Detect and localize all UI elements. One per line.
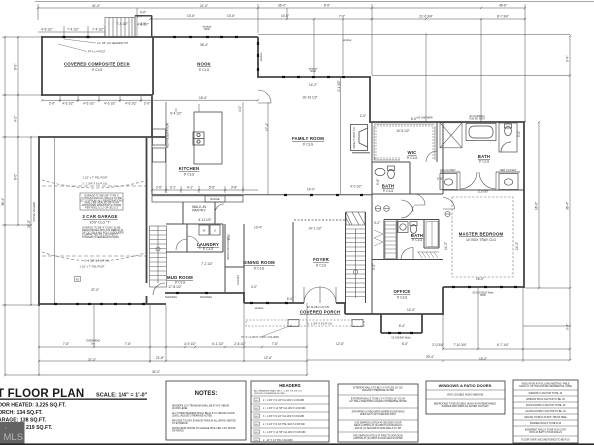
interior walls table [338,384,418,442]
garage interior dim line [54,137,56,304]
detector circles [375,206,381,212]
office door [401,248,413,260]
svg-text:2'-0": 2'-0" [49,101,55,105]
foyer double door [304,287,320,303]
svg-text:UNLESS OTHERWISE NOTED: UNLESS OTHERWISE NOTED [254,393,285,395]
svg-text:17'-8 1/2": 17'-8 1/2" [168,285,181,289]
svg-text:16'-0": 16'-0" [479,357,487,361]
svg-text:9'-2": 9'-2" [372,264,376,270]
svg-text:ORCH: 134 SQ.FT.: ORCH: 134 SQ.FT. [0,410,43,416]
svg-text:41'-0": 41'-0" [92,4,100,8]
svg-text:3 - 1 3/4" X 9 1/4" LVL W/2 X: 3 - 1 3/4" X 9 1/4" LVL W/2 X 6 KD WD [263,415,304,418]
svg-text:3 CAR GARAGE: 3 CAR GARAGE [82,214,117,219]
svg-text:SCALE: 1/4" = 1'-0": SCALE: 1/4" = 1'-0" [96,393,148,399]
svg-text:34'-0": 34'-0" [152,370,160,374]
svg-text:INSULATION AS FOLLOWS MEETING: INSULATION AS FOLLOWS MEETING TABLE [522,383,570,386]
svg-text:21'-0": 21'-0" [200,4,208,8]
svg-text:7'-2 1/2": 7'-2 1/2" [201,262,213,266]
svg-text:21'-6 3/4": 21'-6 3/4" [419,15,432,19]
svg-text:4'-6 1/2": 4'-6 1/2" [125,101,137,105]
svg-text:4'-1 1/2": 4'-1 1/2" [337,80,341,92]
svg-text:AND AT (2) SECOND FLOOR WALLS: AND AT (2) SECOND FLOOR WALLS AT JST [355,427,402,430]
dim top line 1 [38,7,525,9]
svg-text:9' CLG: 9' CLG [203,247,214,251]
svg-text:29'-0": 29'-0" [27,220,31,228]
office bay window [380,314,382,333]
powder bath walls [396,220,398,260]
dim top line 3 left [38,31,105,33]
windows nook east [257,42,259,45]
dimension tick slashes [4,7,571,376]
svg-text:10'-6": 10'-6" [281,14,289,18]
laundry door [187,236,200,249]
hall east wall [442,122,444,194]
porch front wall [244,302,304,304]
svg-text:4'-0 1/2": 4'-0 1/2" [350,185,362,189]
svg-text:37'-0": 37'-0" [91,288,99,292]
svg-text:HER CLOSET: HER CLOSET [500,168,517,172]
svg-text:6'-0": 6'-0" [402,342,408,346]
svg-text:2 - 1 3/4" X 11 7/8" LVL W/2 X: 2 - 1 3/4" X 11 7/8" LVL W/2 X 4 KD WD [263,407,306,410]
svg-text:6'-1 1/2": 6'-1 1/2" [212,342,224,346]
mud room north wall [166,251,187,253]
dimension texts [1,4,570,375]
svg-text:4'-1": 4'-1" [187,186,193,190]
svg-text:29'-4": 29'-4" [426,355,434,359]
svg-text:36'-4": 36'-4" [1,198,5,206]
svg-text:2'-6": 2'-6" [156,186,162,190]
svg-text:6'-4": 6'-4" [399,324,405,328]
svg-text:DOES NOT LAP OVER RIM JOIST: DOES NOT LAP OVER RIM JOIST [360,413,397,416]
HEADERS table [251,381,329,442]
svg-text:36'-4": 36'-4" [200,43,208,47]
svg-text:USE SIMPSON MTS12 AT FIRST FLO: USE SIMPSON MTS12 AT FIRST FLOOR DECK [353,435,403,438]
master wc [499,123,517,152]
svg-text:2 - 14" X 14" PSL COLUMN: 2 - 14" X 14" PSL COLUMN [263,439,293,442]
garage outline [39,136,166,138]
svg-text:ALL HEADERS SHALL BE 2 - 1 3/4: ALL HEADERS SHALL BE 2 - 1 3/4" X 9 1/4"… [254,390,303,393]
kitchen dim verticals [175,108,177,112]
deck post ticks [63,36,66,38]
svg-text:4'-6 1/2": 4'-6 1/2" [62,101,74,105]
svg-text:36'-0": 36'-0" [278,4,286,8]
svg-text:FLOOR OVER UNCONDITIONED TO BE: FLOOR OVER UNCONDITIONED TO BE R-19 [521,440,570,442]
svg-text:PANTRY: PANTRY [192,209,206,213]
svg-text:9' CLG: 9' CLG [479,160,490,164]
svg-text:6046: 6046 [204,27,210,31]
svg-text:PROVIDE T/O DRY EXHAUST FANS: PROVIDE T/O DRY EXHAUST FANS IN ALL BATH… [172,420,236,423]
svg-text:4'-9 1/2": 4'-9 1/2" [184,342,196,346]
svg-text:1/2" WALL SHEATHING UNLESS OTH: 1/2" WALL SHEATHING UNLESS OTHERWISE NOT… [349,400,407,403]
tray ceiling dashed [452,197,513,277]
svg-text:2'-7": 2'-7" [137,15,143,19]
svg-text:8'-0": 8'-0" [14,174,18,180]
svg-text:2'-0": 2'-0" [144,101,150,105]
svg-text:6'-0": 6'-0" [324,4,330,8]
garage door to mud [153,283,165,295]
svg-text:10'-6": 10'-6" [187,14,195,18]
svg-text:9'-4 1/2": 9'-4 1/2" [170,112,182,116]
svg-text:219 SQ.FT.: 219 SQ.FT. [26,425,53,431]
svg-text:HEADERS: HEADERS [279,383,301,388]
bottom edge line [0,443,594,445]
windows mudroom south [176,292,179,294]
hall south wall [384,219,439,221]
svg-text:4'-8 1/2": 4'-8 1/2" [41,28,53,32]
svg-text:14'-2": 14'-2" [309,83,317,87]
svg-text:OOR HEATED: 3,225 SQ.FT.: OOR HEATED: 3,225 SQ.FT. [0,403,66,409]
master tub [466,124,496,141]
svg-text:7'-6": 7'-6" [339,15,345,19]
fireplace [351,125,371,153]
svg-text:10'6" CLG "T": 10'6" CLG "T" [90,221,112,225]
svg-text:4'-6 1/2": 4'-6 1/2" [83,101,95,105]
svg-text:COVERED COMPOSITE DECK: COVERED COMPOSITE DECK [64,62,131,67]
svg-text:HEADERS (2) X TRANSOM SHALL BE: HEADERS (2) X TRANSOM SHALL BE AT 8'-8" … [172,405,230,408]
svg-text:2 - 9 1/4" X 9 1/4" PSL W/2 X: 2 - 9 1/4" X 9 1/4" PSL W/2 X 4 KD WD [263,423,305,426]
nook east window wall [257,37,259,77]
deck left wall [41,36,43,96]
svg-text:2-1 7/8" LVL HEADER TYP: 2-1 7/8" LVL HEADER TYP [97,41,129,45]
dim top line 2 [150,18,525,20]
svg-text:FAMILY ROOM: FAMILY ROOM [292,136,324,141]
cased opening dashed [294,219,345,221]
svg-text:LAPPING AT (2) FIRST FLOOR WAL: LAPPING AT (2) FIRST FLOOR WALLS NOTED [353,437,403,440]
title floor plan [0,388,148,431]
svg-text:PT 4 x 4 POST: PT 4 x 4 POST [88,50,106,54]
svg-text:21'-8": 21'-8" [156,356,164,360]
svg-text:INTERIOR WALLS TO BE 2 X 4 STU: INTERIOR WALLS TO BE 2 X 4 STUDS 16" O/C [353,387,403,390]
svg-text:BATH: BATH [382,184,394,189]
svg-text:9' CLG: 9' CLG [383,189,394,193]
sheet border top [35,1,594,3]
svg-text:FRAMED WALLS TO BE R-15: FRAMED WALLS TO BE R-15 [530,422,562,425]
svg-text:8'-0": 8'-0" [14,64,18,70]
svg-text:VINYL DOUBLE HUNG WINDOW: VINYL DOUBLE HUNG WINDOW [447,394,484,397]
left dim verticals [4,37,6,375]
garage note 2 [82,226,124,240]
svg-text:9'-4": 9'-4" [566,324,570,330]
svg-text:HIS CLOSET: HIS CLOSET [440,168,456,172]
walls group [39,36,525,333]
laundry walls [166,223,223,225]
attic hatch marks [417,252,439,258]
svg-text:60 SSHND Wdw: 60 SSHND Wdw [391,336,410,340]
deck east wall [152,37,154,95]
svg-text:STRAPPING IS REQUIRED WHERE EL: STRAPPING IS REQUIRED WHERE ELEVATIONS [352,411,405,414]
master bath south wall [443,189,524,191]
svg-text:9' CLG: 9' CLG [254,267,265,271]
garage beams [42,180,148,261]
svg-text:6046: 6046 [310,69,316,73]
svg-text:T FLOOR PLAN: T FLOOR PLAN [0,388,84,400]
bath2 door [414,194,425,205]
svg-text:CEILING TO BE R-49 W/4" TRUSS: CEILING TO BE R-49 W/4" TRUSS HEEL [524,417,568,419]
svg-text:9' CLG: 9' CLG [92,68,103,72]
hall door [401,200,413,212]
svg-text:6'-0": 6'-0" [227,234,231,240]
windows office bay [388,332,391,334]
linen shelf strip [374,222,396,259]
svg-text:37'-0": 37'-0" [88,358,96,362]
svg-text:NOOK: NOOK [197,62,211,67]
svg-text:MASTER BEDROOM: MASTER BEDROOM [459,232,504,237]
svg-text:COVERED PORCH: COVERED PORCH [300,310,341,315]
svg-text:2 - 1 3/4" X 9 1/4" LVL: 2 - 1 3/4" X 9 1/4" LVL [82,182,108,186]
shower bath2 with X [440,123,462,148]
svg-text:UNLESS OTHERWISE NOTED: UNLESS OTHERWISE NOTED [362,390,395,392]
deck bottom dim line [42,99,258,101]
svg-text:BASEMENT WALLS TO BE R-10 CONT: BASEMENT WALLS TO BE R-10 CONT [525,429,567,432]
svg-text:2'-0": 2'-0" [360,114,366,118]
svg-text:DECK LAPPING AT (2) FIRST FLOO: DECK LAPPING AT (2) FIRST FLOOR WALLS [354,424,402,427]
svg-text:14'-4": 14'-4" [407,308,415,312]
wic shelf hatching [374,124,435,160]
svg-text:9' CLG: 9' CLG [316,264,327,268]
svg-text:4'-2": 4'-2" [374,221,380,225]
svg-text:1 1/2" x 7" PSL POST: 1 1/2" x 7" PSL POST [79,265,105,269]
mud to kitchen door [176,239,187,250]
family room north window wall [257,76,371,78]
svg-text:9'-4": 9'-4" [566,56,570,62]
svg-text:13'-4": 13'-4" [254,226,262,230]
svg-text:3'-1": 3'-1" [170,186,176,190]
kitchen west wall [151,95,153,138]
svg-text:STONE VENEER: STONE VENEER [32,202,36,222]
svg-text:window: window [343,38,352,42]
svg-text:TUB W/ SEAT: TUB W/ SEAT [469,117,486,121]
deck bottom wall [41,94,152,96]
deck stairs [105,16,152,38]
family wing east wall [369,77,371,123]
dimension lines group [2,4,570,375]
dim extension verticals right [313,19,315,75]
svg-text:CLOSET: CLOSET [236,274,240,285]
svg-text:7'-4 1/2": 7'-4 1/2" [116,22,128,26]
master closet doors [460,172,496,189]
NOTES table [166,381,246,440]
svg-text:36'-4": 36'-4" [566,202,570,210]
svg-text:7'-4 1/2": 7'-4 1/2" [67,28,79,32]
svg-text:MUD ROOM: MUD ROOM [167,275,193,280]
svg-text:SASHES AND SIZES AS NOTED ON P: SASHES AND SIZES AS NOTED ON PLAN [442,405,489,408]
svg-text:14'-1 1/2": 14'-1 1/2" [308,227,321,231]
svg-text:10' SLAB 2 1/2" DN: 10' SLAB 2 1/2" DN [307,305,330,309]
kitchen south wall [152,194,258,196]
svg-text:5'-0": 5'-0" [517,131,521,137]
svg-text:SOLID DOORS U-FACTOR TO BE .20: SOLID DOORS U-FACTOR TO BE .20 [526,404,566,407]
svg-text:16'-0": 16'-0" [476,277,484,281]
pantry walls [182,202,184,224]
wic door [426,151,437,162]
svg-text:12'-6": 12'-6" [264,356,272,360]
master south window wall [443,286,524,288]
powder bath fixtures [398,222,417,234]
laundry fixtures [199,225,220,235]
svg-text:12'-6": 12'-6" [336,342,344,346]
wic walls [371,123,373,194]
office north wall [372,259,443,261]
garage wall ticks [54,303,57,305]
bottom dim lines [38,305,40,375]
svg-text:OFFICE: OFFICE [394,289,411,294]
MLS watermark [0,422,25,445]
svg-text:window: window [255,306,264,310]
family south wall [258,194,372,196]
svg-text:REFRIGERATOR: REFRIGERATOR [166,122,170,148]
svg-text:2'-8 1/2": 2'-8 1/2" [234,342,246,346]
foyer stairs [346,212,365,298]
bath2 fixtures [375,166,395,179]
svg-text:9' CLG: 9' CLG [407,156,418,160]
svg-text:9' CLG: 9' CLG [175,281,186,285]
office closet hatch [426,222,438,247]
porch beam dashed [246,320,364,327]
windows family north [282,76,285,78]
svg-text:8'-7 3/4": 8'-7 3/4" [497,15,509,19]
pantry door [215,204,224,213]
kitchen island [193,112,222,164]
master west wall lower [442,287,444,315]
svg-text:7'-4 1/2": 7'-4 1/2" [92,28,104,32]
windows nook north [173,36,176,38]
svg-text:WIC: WIC [408,150,417,155]
svg-text:6'-0": 6'-0" [287,297,293,301]
windows patio doors table [426,381,505,414]
svg-text:OR RATED: OR RATED [172,430,184,433]
svg-text:WINDOW SHGC FACTOR TO BE .25: WINDOW SHGC FACTOR TO BE .25 [526,398,565,401]
kitchen counters [152,102,243,202]
deck top wall [41,36,258,38]
svg-text:NOTES:: NOTES: [195,391,218,397]
interior walls [152,122,524,314]
svg-text:4'-2": 4'-2" [251,285,257,289]
insulation table [513,380,578,443]
window ticks [54,37,517,333]
svg-text:4'-0": 4'-0" [238,106,242,112]
svg-text:2 - 1 3/4" X 9 1/4" LVL: 2 - 1 3/4" X 9 1/4" LVL [84,259,110,263]
garage note box 1 [80,193,123,210]
svg-text:7'-10 3/4": 7'-10 3/4" [453,343,466,347]
svg-text:4'-2": 4'-2" [14,116,18,122]
svg-text:FLOOR LEVEL: FLOOR LEVEL [172,408,188,410]
svg-text:9' CLG: 9' CLG [199,68,210,72]
svg-text:16'-10 1/2": 16'-10 1/2" [302,96,317,100]
foyer west wall [292,222,294,303]
svg-text:5'-11 1/2": 5'-11 1/2" [198,218,211,222]
svg-text:FD: FD [76,277,80,281]
svg-text:CLOSET: CLOSET [478,190,489,194]
windows family south [284,194,287,196]
svg-text:10' BOX TRAY CLG: 10' BOX TRAY CLG [466,238,496,242]
svg-text:KITCHEN: KITCHEN [179,166,200,171]
svg-text:60 SHOWER: 60 SHOWER [417,116,432,120]
svg-text:PT 4 x 4 OR 6" VINYL COLUMN: PT 4 x 4 OR 6" VINYL COLUMN [241,335,279,339]
kitchen west interior [151,138,153,195]
master east wall [523,122,525,288]
svg-text:2 - 1 3/4" X 9 1/4" LVL: 2 - 1 3/4" X 9 1/4" LVL [307,322,333,326]
svg-text:window: window [259,53,263,62]
svg-text:6'-7 1/4": 6'-7 1/4" [497,343,509,347]
nook deck door [258,90,271,103]
svg-text:7'-6": 7'-6" [272,342,278,346]
svg-text:5'-6": 5'-6" [376,179,380,185]
hall closet wall [371,260,373,315]
svg-text:14'-2": 14'-2" [444,242,448,250]
office south wall [345,313,443,315]
svg-text:TOWARD OVERHEAD DOORS: TOWARD OVERHEAD DOORS [82,235,119,239]
svg-text:2'-0": 2'-0" [437,177,443,181]
svg-text:GLASS DOORS U-FACTOR TO BE .32: GLASS DOORS U-FACTOR TO BE .32 [525,410,566,413]
svg-text:3'-8": 3'-8" [231,186,237,190]
mudroom south wall [165,292,244,294]
svg-text:9' CLG: 9' CLG [397,296,408,300]
svg-text:10'-5 1/2": 10'-5 1/2" [396,129,409,133]
svg-text:OR R-13 BATT # STUD WALLS: OR R-13 BATT # STUD WALLS [529,431,562,434]
svg-text:DIRECT VENT F.P.: DIRECT VENT F.P. [352,126,356,148]
svg-text:3 - 1 3/4" X 11 7/8" LVL W/2 X: 3 - 1 3/4" X 11 7/8" LVL W/2 X 6 KD WD [263,431,306,434]
bath2 walls [409,162,411,194]
svg-text:9' CLG: 9' CLG [303,143,314,147]
svg-text:Drs: Drs [91,341,96,345]
svg-text:16'-4": 16'-4" [199,96,207,100]
svg-text:7'-6": 7'-6" [125,342,131,346]
svg-text:10'-6": 10'-6" [227,14,235,18]
svg-text:DOOR FROM HOUSE TO GARAGE SHAL: DOOR FROM HOUSE TO GARAGE SHALL BE 1 3/4… [172,427,236,430]
svg-text:9' CLG: 9' CLG [412,238,423,242]
svg-text:4'-8 1/2": 4'-8 1/2" [137,23,149,27]
svg-text:7'-6": 7'-6" [63,342,69,346]
svg-text:6'-0": 6'-0" [411,117,417,121]
kitchen dim line [152,189,258,191]
svg-text:17'-4": 17'-4" [265,123,269,131]
svg-text:2'-0 3/4": 2'-0 3/4" [432,343,444,347]
svg-text:1 1/2" x 7" PSL POST: 1 1/2" x 7" PSL POST [82,176,108,180]
basement stairs [150,226,167,287]
svg-text:14'-2": 14'-2" [515,242,519,250]
svg-text:ALL OTHER HEADERS SHALL BE AT: ALL OTHER HEADERS SHALL BE AT 6'-11" ABO… [172,412,235,415]
svg-text:LEVEL UNLESS OTHERWISE NOTED: LEVEL UNLESS OTHERWISE NOTED [172,416,212,418]
master suite north wall [370,121,525,123]
svg-text:9' CLG: 9' CLG [184,173,195,177]
master vanities [440,172,520,190]
svg-text:14'-0": 14'-0" [307,188,315,192]
svg-text:FOYER: FOYER [313,257,329,262]
svg-text:N1102.1.1 OF THE 2015 IRC RESI: N1102.1.1 OF THE 2015 IRC RESIDENTIAL CO… [519,385,572,388]
door arcs [153,90,455,303]
svg-text:D: D [214,229,216,233]
svg-text:WINDOWS & PATIO DOORS: WINDOWS & PATIO DOORS [439,383,492,388]
svg-text:DINING ROOM: DINING ROOM [243,260,275,265]
windows master south [452,286,455,288]
roofline right horizontals [258,34,570,36]
svg-text:MLS: MLS [4,432,24,443]
svg-text:RANGE: RANGE [210,197,219,201]
svg-text:WINDOW U-FACTOR TO BE .32: WINDOW U-FACTOR TO BE .32 [529,392,563,395]
svg-text:5'-5": 5'-5" [209,186,215,190]
svg-text:4'-0": 4'-0" [140,11,146,15]
stairs2 wall [345,212,347,303]
bench wall [224,224,226,293]
garage door jamb ticks [93,304,95,347]
svg-text:5050: 5050 [480,293,486,297]
svg-text:SGD/Wdw: SGD/Wdw [200,295,212,299]
svg-text:SGD/Wdw: SGD/Wdw [165,295,177,299]
svg-text:16'-0": 16'-0" [535,202,539,210]
svg-text:4'-6 1/2": 4'-6 1/2" [104,101,116,105]
svg-text:46'-6": 46'-6" [499,4,507,8]
svg-text:TO EXTERIOR: TO EXTERIOR [172,423,188,425]
